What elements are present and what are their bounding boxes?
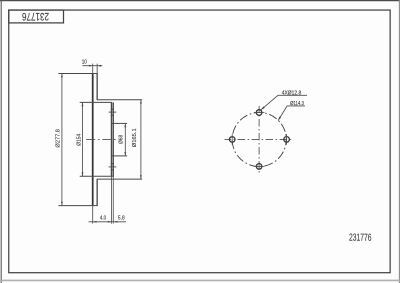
svg-text:Ø154: Ø154: [77, 134, 83, 146]
svg-text:10: 10: [82, 59, 87, 65]
arrowheads dia 165.1: [140, 100, 142, 104]
arrowheads dia 154: [82, 102, 84, 106]
disc outboard friction face upper: [96, 74, 98, 100]
dim line diameter 68: [124, 123, 126, 155]
arrowheads dia 277.8: [61, 74, 63, 78]
dim line diameter 154: [82, 102, 84, 176]
arrowheads dim 40: [93, 221, 97, 223]
arrowheads dia 68: [124, 123, 126, 127]
leader arrowhead: [261, 106, 265, 109]
title block box: [9, 10, 64, 23]
svg-text:4XØ12.8: 4XØ12.8: [282, 90, 302, 96]
horizontal centreline: [225, 138, 294, 140]
mounting flange inboard wall: [110, 102, 112, 176]
dim line diameter 165.1: [140, 100, 142, 179]
svg-text:Ø277.8: Ø277.8: [56, 129, 62, 148]
centre bore top edge + dim extension: [112, 122, 128, 124]
disc inboard face (vertical, full diameter): [92, 74, 94, 206]
hat cylinder bottom edge + dim extension: [97, 178, 143, 180]
arrowheads dim 10 (outside): [89, 65, 93, 67]
bolt hole S: [256, 164, 262, 170]
svg-text:Ø165.1: Ø165.1: [132, 128, 138, 147]
arrowhead dim 5.8 (outside right): [114, 221, 118, 223]
disc OD top edge + dim extension: [58, 73, 97, 75]
hole W cross tick: [231, 134, 233, 145]
leader arrowhead: [278, 116, 281, 120]
svg-text:231776: 231776: [22, 10, 49, 22]
bolt hole lower edge lines in flange: [111, 163, 114, 165]
outer page edge top: [0, 0, 400, 2]
flange OD top edge + dim extension: [80, 101, 112, 103]
svg-text:Ø68: Ø68: [119, 135, 125, 144]
outer page edge bottom: [0, 279, 400, 281]
extension lines for 10: [92, 64, 94, 74]
svg-text:231776: 231776: [349, 233, 372, 244]
mounting flange outboard wall: [112, 102, 114, 176]
hole S cross tick: [254, 165, 265, 167]
svg-text:Ø114.3: Ø114.3: [290, 101, 304, 107]
disc outboard friction face lower: [96, 179, 98, 206]
disc OD bottom edge + dim extension: [58, 205, 97, 207]
dim line diameter 277.8: [61, 74, 63, 206]
vertical centreline: [258, 106, 260, 173]
leader line for dia 114.3: [278, 106, 305, 121]
bolt hole centreline tick upper: [109, 111, 117, 113]
bolt hole N: [256, 110, 262, 116]
svg-text:4.0: 4.0: [100, 216, 106, 222]
dim line 40 / 5.8 (bottom): [89, 221, 127, 223]
hole N cross tick: [254, 112, 265, 114]
dim line 10 (top): [82, 65, 102, 67]
bolt hole upper edge lines in flange: [111, 108, 114, 110]
flange OD bottom edge + dim extension: [80, 175, 114, 177]
outer page edge left: [0, 0, 2, 283]
bolt hole centreline tick lower: [109, 166, 117, 168]
bolt hole E: [284, 137, 290, 143]
hat cylinder top edge + dim extension: [97, 99, 143, 101]
svg-text:5.8: 5.8: [118, 216, 125, 222]
bolt circle dia 114.3 (dash-dot): [232, 112, 286, 166]
axis centreline (dash-dot): [86, 139, 116, 141]
hole E cross tick: [286, 134, 288, 145]
extension line at disc bottom for 40: [92, 206, 94, 224]
leader line for 4x12.8: [261, 95, 307, 110]
outer page edge right: [398, 0, 400, 283]
bolt hole W: [229, 137, 235, 143]
centre bore bottom edge + dim extension: [112, 155, 128, 157]
